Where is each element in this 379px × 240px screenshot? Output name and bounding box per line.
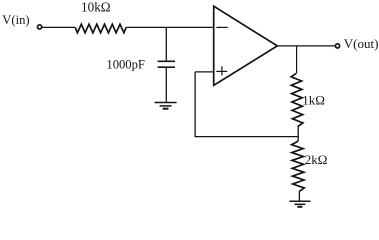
svg-text:1000pF: 1000pF bbox=[106, 58, 144, 72]
svg-text:10kΩ: 10kΩ bbox=[81, 0, 111, 15]
svg-text:V(out): V(out) bbox=[344, 36, 379, 51]
svg-text:V(in): V(in) bbox=[2, 13, 29, 27]
svg-text:1kΩ: 1kΩ bbox=[302, 93, 325, 108]
svg-text:2kΩ: 2kΩ bbox=[305, 152, 328, 167]
